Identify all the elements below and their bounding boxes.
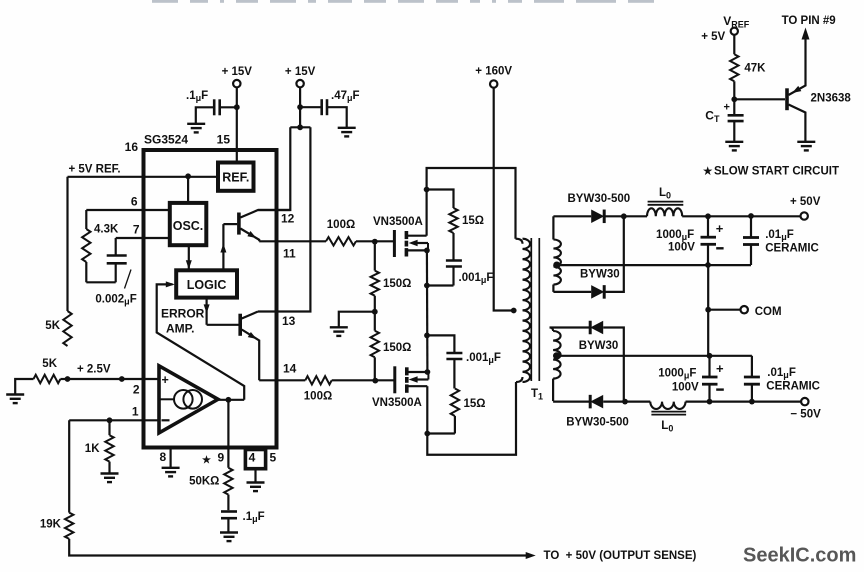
node snubber1 top — [424, 187, 430, 193]
svg-text:★: ★ — [202, 455, 211, 466]
terminal +50V — [790, 196, 821, 220]
transistor Q2 (IC output bottom) — [240, 312, 259, 381]
svg-text:.001μF: .001μF — [459, 272, 494, 285]
svg-text:.001μF: .001μF — [466, 352, 501, 365]
svg-text:★: ★ — [703, 166, 713, 178]
node primary center tap — [511, 308, 517, 314]
op-amp error amplifier — [159, 366, 218, 433]
wire Q4 drain to primary bottom — [427, 382, 516, 455]
capacitor C1 .1uF — [186, 90, 237, 123]
svg-text:4.3K: 4.3K — [94, 224, 119, 236]
wire pin 14 emitter — [259, 379, 305, 381]
svg-text:VN3500A: VN3500A — [372, 397, 422, 409]
svg-text:2N3638: 2N3638 — [811, 93, 852, 105]
pin label 14 — [283, 362, 297, 376]
node 150 mid — [372, 309, 378, 315]
svg-text:11: 11 — [283, 247, 296, 261]
wire base 2N3638 — [734, 98, 785, 100]
pin label 11 — [283, 247, 296, 261]
svg-text:100Ω: 100Ω — [327, 219, 355, 231]
capacitor .01uF upper — [743, 216, 819, 265]
svg-text:15: 15 — [217, 133, 231, 147]
svg-text:BYW30-500: BYW30-500 — [566, 417, 629, 429]
transistor Q1 (IC output top) — [239, 210, 290, 241]
IC U1 SG3524 outline — [144, 133, 277, 448]
wire to L02 — [625, 401, 650, 403]
resistor 5K vertical — [45, 311, 71, 346]
resistor 15ohm upper — [427, 190, 484, 261]
wire OSC to LOGIC — [186, 245, 192, 269]
node snubber2 top — [424, 333, 430, 339]
svg-text:CERAMIC: CERAMIC — [766, 381, 820, 393]
pin label 5 — [270, 451, 277, 465]
svg-text:13: 13 — [282, 314, 296, 328]
resistor 150ohm upper — [371, 242, 412, 312]
transistor Q5 2N3638 — [787, 36, 851, 142]
ground 1K — [101, 474, 119, 483]
resistor 19K — [40, 420, 527, 555]
terminal VREF — [701, 14, 750, 43]
supply terminal +15V (right) — [285, 66, 316, 87]
label +2.5V — [77, 364, 111, 376]
MOSFET Q3 VN3500A upper — [373, 216, 428, 257]
wire source bus — [426, 250, 429, 372]
transformer secondary lower — [550, 328, 561, 402]
svg-text:4: 4 — [249, 451, 256, 465]
svg-text:COM: COM — [755, 306, 782, 318]
ground C1 — [187, 124, 205, 133]
svg-text:.01μF: .01μF — [765, 229, 794, 242]
pin label 13 — [282, 314, 296, 328]
pin label 15 — [217, 133, 231, 147]
wire +160V to center tap — [494, 88, 514, 311]
cropped page title remnants — [152, 0, 654, 3]
pin label 12 — [281, 212, 295, 226]
node gate2/150 — [372, 378, 378, 384]
node +2.5V — [65, 376, 71, 382]
svg-text:15Ω: 15Ω — [462, 215, 484, 227]
node ceramic1 top — [748, 213, 754, 219]
node filter2 bottom — [707, 399, 713, 405]
node Q4 drain join — [424, 431, 430, 437]
wire secondary1 bottom to D2 — [553, 291, 591, 293]
svg-text:+ 15V: + 15V — [285, 66, 316, 78]
capacitor 0.002uF — [86, 238, 126, 282]
svg-text:1: 1 — [132, 405, 139, 419]
resistor 100ohm upper — [326, 219, 394, 246]
diode D1 BYW30-500 — [568, 193, 631, 223]
wire pin 7 — [116, 237, 170, 239]
wire VREF to 47K — [733, 35, 735, 54]
wire +5V REF rail — [68, 176, 219, 178]
svg-text:1000μF: 1000μF — [656, 229, 694, 242]
svg-text:− 50V: − 50V — [790, 409, 821, 421]
node bus split — [297, 124, 303, 130]
node secondary2 tap — [553, 352, 752, 359]
svg-text:SLOW START CIRCUIT: SLOW START CIRCUIT — [714, 166, 839, 178]
svg-text:CERAMIC: CERAMIC — [765, 242, 819, 254]
node gate1/150 — [372, 239, 378, 245]
node Q3 source — [424, 248, 430, 254]
arrow output sense — [526, 550, 697, 562]
inductor L0 upper — [647, 187, 683, 216]
wire secondary1 top to D1 — [553, 215, 591, 217]
ground C2 — [338, 128, 356, 137]
supply terminal +15V (left) — [222, 66, 253, 87]
pin label 6 — [131, 195, 138, 209]
arrow TO PIN 9 — [782, 15, 836, 40]
ground 5K — [6, 395, 24, 404]
capacitor .01uF lower — [744, 356, 820, 402]
wire pin 9 — [227, 400, 229, 468]
node D3-D4 join — [622, 399, 628, 405]
svg-text:+: + — [724, 102, 730, 114]
label 0.002uF — [95, 270, 136, 307]
wire secondary2 top to D3 — [550, 326, 591, 328]
svg-text:5K: 5K — [45, 320, 60, 332]
wire +15V B down — [299, 87, 301, 128]
svg-text:5K: 5K — [42, 358, 57, 370]
svg-text:6: 6 — [131, 195, 138, 209]
wire to L01 — [624, 215, 647, 217]
svg-text:16: 16 — [125, 140, 139, 154]
wire Q3 drain to primary — [427, 168, 516, 239]
pin label 1 — [132, 405, 139, 419]
node filter1 top — [705, 213, 711, 219]
svg-text:2: 2 — [133, 383, 140, 397]
diode D2 BYW30 — [580, 269, 620, 299]
svg-text:50KΩ: 50KΩ — [189, 476, 219, 488]
svg-text:+ 5V: + 5V — [701, 31, 725, 43]
wire pin 1 — [69, 419, 159, 421]
svg-text:150Ω: 150Ω — [383, 342, 411, 354]
terminal -50V — [790, 398, 821, 421]
svg-text:5: 5 — [270, 451, 277, 465]
svg-text:15Ω: 15Ω — [464, 398, 486, 410]
ground 2N3638 — [797, 142, 815, 151]
ground pins 4-5 — [247, 483, 265, 492]
capacitor .001uF upper — [427, 261, 494, 286]
svg-text:AMP.: AMP. — [166, 322, 194, 336]
wire bus top — [290, 126, 310, 128]
svg-text:+ 15V: + 15V — [222, 66, 253, 78]
transformer T1 primary — [516, 239, 531, 382]
node pin1/1K — [107, 417, 113, 423]
resistor 4.3K — [82, 210, 119, 282]
node filter1 bottom — [705, 262, 711, 268]
svg-text:TO + 50V (OUTPUT SENSE): TO + 50V (OUTPUT SENSE) — [544, 550, 697, 562]
svg-text:+: + — [716, 361, 724, 376]
block LOGIC — [176, 270, 237, 297]
svg-text:REF.: REF. — [222, 171, 249, 185]
wire LOGIC to Q1 base — [220, 224, 237, 270]
svg-text:TO PIN #9: TO PIN #9 — [782, 15, 836, 27]
label ERROR AMP — [161, 307, 205, 336]
svg-text:SG3524: SG3524 — [144, 133, 188, 147]
wire COM — [708, 309, 740, 311]
svg-text:BYW30: BYW30 — [580, 269, 620, 281]
node filter2 top — [707, 353, 713, 359]
svg-text:SeekIC.com: SeekIC.com — [743, 545, 856, 567]
node +15V B / C2 — [297, 104, 303, 110]
wire COM vertical — [707, 265, 709, 356]
wire EA feedback to LOGIC — [157, 281, 245, 399]
wire EA out to pin9 stub — [218, 399, 244, 401]
pin label 16 — [125, 140, 139, 154]
watermark SeekIC.com — [743, 545, 856, 567]
wire pin 11 emitter — [259, 240, 326, 242]
svg-text:ERROR: ERROR — [161, 307, 205, 321]
node error amp output — [226, 397, 232, 403]
wire 150s to ground — [339, 312, 375, 327]
svg-text:8: 8 — [160, 450, 167, 464]
node +15V A / C1 — [234, 104, 240, 110]
block OSC — [170, 177, 207, 245]
transformer secondary upper — [553, 216, 561, 292]
svg-text:+ 160V: + 160V — [475, 66, 512, 78]
svg-text:1K: 1K — [85, 443, 100, 455]
inductor L0 lower — [650, 402, 686, 434]
pin label 7 — [133, 223, 140, 237]
svg-text:+ 2.5V: + 2.5V — [77, 364, 111, 376]
capacitor .001uF lower — [427, 335, 501, 388]
node secondary1 tap — [553, 262, 751, 269]
capacitor CT — [705, 99, 743, 141]
resistor 47K — [730, 54, 766, 99]
svg-text:0.002μF: 0.002μF — [95, 294, 136, 307]
diode D4 BYW30-500 — [566, 395, 629, 429]
resistor 150ohm lower — [371, 312, 412, 381]
wire pin 6 — [86, 209, 170, 211]
ground CT — [725, 142, 743, 151]
node pin2 — [119, 376, 125, 382]
capacitor .1uF pin9 — [221, 511, 265, 532]
ground pin8 — [162, 468, 180, 477]
pins 4-5 box — [245, 450, 265, 483]
svg-text:150Ω: 150Ω — [383, 278, 411, 290]
supply terminal +160V — [475, 66, 512, 88]
svg-text:100V: 100V — [668, 242, 695, 254]
svg-text:OSC.: OSC. — [173, 219, 204, 233]
MOSFET Q4 VN3500A lower — [372, 366, 428, 409]
label +5V REF. — [69, 164, 121, 176]
capacitor C2 .47uF — [300, 90, 359, 127]
capacitor 1000uF upper — [656, 216, 724, 265]
wire bus to pin 12 — [258, 127, 290, 210]
label T1 — [531, 388, 543, 402]
svg-text:VN3500A: VN3500A — [373, 216, 423, 228]
svg-text:BYW30: BYW30 — [579, 340, 619, 352]
svg-text:9: 9 — [218, 451, 225, 465]
pin 8 ground lead — [170, 450, 172, 468]
svg-text:19K: 19K — [40, 519, 62, 531]
wire bus to pin 13 — [258, 127, 310, 311]
svg-text:.47μF: .47μF — [331, 90, 360, 103]
terminal COM — [741, 306, 782, 318]
wire +15V to pin 15 / REF — [236, 87, 238, 163]
svg-text:LOGIC: LOGIC — [187, 278, 227, 292]
wire LOGIC to Q2 base — [204, 298, 239, 325]
wire pin 2 (+2.5V) — [68, 378, 160, 380]
wire L02 to -50V — [686, 401, 802, 403]
diode D3 BYW30 — [579, 321, 619, 352]
svg-text:14: 14 — [283, 362, 297, 376]
resistor 15ohm lower — [427, 389, 485, 434]
svg-text:+: + — [716, 221, 724, 236]
wire L01 to +50V — [682, 215, 800, 217]
svg-text:100Ω: 100Ω — [304, 391, 332, 403]
svg-text:1000μF: 1000μF — [658, 367, 696, 380]
svg-text:+ 5V REF.: + 5V REF. — [69, 164, 121, 176]
pin label 2 — [133, 383, 140, 397]
capacitor 1000uF lower — [658, 356, 724, 402]
label slow start — [703, 166, 839, 178]
ground 150s — [330, 327, 348, 336]
svg-text:12: 12 — [281, 212, 295, 226]
svg-text:7: 7 — [133, 223, 140, 237]
svg-text:+: + — [162, 373, 169, 387]
node snubber1 bottom — [424, 283, 430, 289]
svg-text:+ 50V: + 50V — [790, 196, 821, 208]
node OSC feed — [185, 173, 191, 179]
pin label 8 — [160, 450, 167, 464]
wire D3 to node — [603, 328, 624, 402]
svg-text:100V: 100V — [672, 382, 699, 394]
pin label 9 — [202, 451, 224, 467]
node D1-D2 join — [621, 213, 627, 219]
resistor 50K — [189, 468, 233, 511]
resistor 100ohm lower — [304, 376, 395, 402]
resistor 5K horizontal — [15, 358, 67, 394]
ground .1uF — [220, 533, 238, 542]
block REF — [218, 163, 254, 191]
transformer core — [531, 238, 539, 381]
svg-text:47K: 47K — [744, 63, 766, 75]
node COM — [705, 307, 711, 313]
resistor 1K — [85, 420, 114, 473]
node Q4 source — [425, 369, 431, 375]
wire D2 to node — [604, 216, 624, 292]
svg-text:BYW30-500: BYW30-500 — [568, 193, 631, 205]
wire secondary2 bottom to D4 — [553, 401, 590, 403]
svg-text:.01μF: .01μF — [767, 367, 796, 380]
node ceramic2 bottom — [749, 399, 755, 405]
node 47K/CT/base — [731, 96, 737, 102]
wire +5VREF corner down — [66, 177, 68, 311]
